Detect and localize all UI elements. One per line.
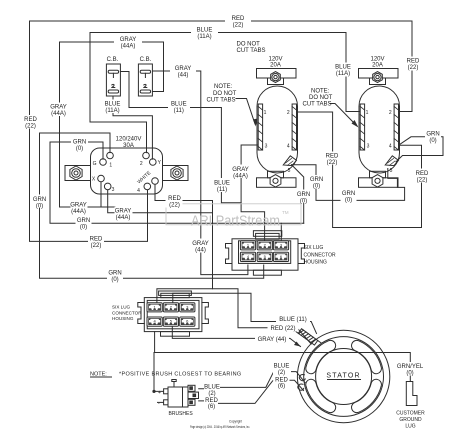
leader brushes RED(6) [199,381,273,404]
svg-text:GRN: GRN [33,197,46,203]
svg-text:Copyright: Copyright [229,420,242,424]
svg-text:C.B.: C.B. [140,57,152,63]
svg-text:NOTE:: NOTE: [311,89,330,95]
stator slot SW [306,379,336,412]
svg-text:BLUE: BLUE [197,27,213,33]
label BLUE (11A) under CB1 [103,100,122,114]
circuit breaker CB2 [138,64,152,96]
svg-text:20A: 20A [372,62,383,68]
L14-30 receptacle body [91,148,163,194]
wire brush feed [154,353,164,392]
stator slot NW [306,340,336,373]
receptacle terminal numbers rec2 [366,110,393,174]
svg-text:GRN: GRN [426,131,439,137]
label RED (22) left vertical [23,115,38,129]
svg-text:30A: 30A [123,143,134,149]
watermark box [166,204,301,225]
svg-text:DO NOT: DO NOT [309,95,333,101]
L14 terminal X [98,175,105,182]
svg-text:GRN: GRN [73,139,86,145]
stator ring circle [304,337,384,417]
svg-text:GRN: GRN [108,270,121,276]
receptacle terminal numbers rec1 [264,110,291,174]
middle connector pin 2 [257,241,272,250]
svg-text:4: 4 [137,188,140,194]
wire BLUE(11A): L14 circle 2 to receptacle2 terminal1 [90,33,360,153]
label GRN (0) low bus [107,268,123,283]
svg-text:GRAY (44): GRAY (44) [258,337,287,343]
svg-text:3: 3 [367,144,370,150]
bottom connector pin 3 [180,303,195,312]
svg-text:BLUE (11): BLUE (11) [279,317,307,323]
svg-text:GRAY: GRAY [115,208,132,214]
svg-text:(44A): (44A) [121,43,136,49]
middle connector pin 1 [240,241,255,250]
tab 5 [283,156,296,166]
svg-text:RED: RED [205,398,218,404]
svg-text:RED: RED [407,58,420,64]
svg-text:NOTE:: NOTE: [214,84,233,90]
label GRN (0) tab5 riser 2 [296,190,312,205]
svg-text:BLUE: BLUE [214,180,230,186]
svg-text:CONNECTOR: CONNECTOR [304,253,337,259]
wire L14 circle 3 to RED vertical (GRAY 44A leader) [108,190,213,213]
wire L14 circle X drop [100,182,102,207]
wire GRN/YEL: bottom connector pin4 across stator to ground lug [155,332,411,382]
stator winding hatch [295,326,321,347]
svg-text:(2): (2) [208,391,215,397]
label GRAY (44A) rec1 t3 [230,165,252,180]
wire RED(22): receptacle1 terminal2 to receptacle2 terminal4 [297,112,422,228]
svg-text:(44A): (44A) [71,209,86,215]
label BLUE (2) right [273,362,291,376]
L14 right mounting ear [163,166,189,181]
svg-text:(22): (22) [25,123,36,129]
svg-text:GROUND: GROUND [399,417,422,423]
svg-text:(0): (0) [429,138,436,144]
svg-text:RED: RED [232,16,245,22]
wire GRN(0): L14 circle G to green bus [50,142,304,223]
stator slot SE [352,379,382,412]
arrowhead note2 [253,119,258,127]
svg-text:SIX LUG: SIX LUG [304,245,324,251]
svg-text:RED (22): RED (22) [270,326,295,332]
middle connector pin 4 [240,252,255,261]
label GRN/YEL (0) [396,362,425,377]
svg-text:(44): (44) [195,247,206,253]
svg-text:(0): (0) [406,371,413,377]
svg-text:Page design (c) 2004 - 2016 by: Page design (c) 2004 - 2016 by ARI Netwo… [190,425,250,429]
svg-text:GRAY: GRAY [192,241,209,247]
label BLUE (2) brushes [204,385,220,397]
wire GRAY(44A): receptacle1 terminal3 to middle connector pin2 [241,145,265,241]
svg-text:CUSTOMER: CUSTOMER [396,411,425,417]
stator outer circle [297,330,389,422]
svg-text:RED: RED [24,117,37,123]
six lug connector middle housing [226,231,305,276]
label GRN (0) rec2 jumper [425,129,441,144]
svg-text:DO NOT: DO NOT [237,41,261,47]
note1 do not cut tabs [237,41,266,54]
middle connector pin 6 [273,252,288,261]
svg-text:(6): (6) [278,384,285,390]
svg-text:GRN/YEL: GRN/YEL [397,364,424,370]
bottom connector pin 1 [147,303,162,312]
wire GRN(0) riser to receptacle1 tab5 [292,165,304,224]
stator brush hook upper [299,375,305,381]
svg-text:(11): (11) [174,108,184,114]
svg-text:(22): (22) [408,65,419,71]
stator inner circle [316,349,372,405]
wire GRN(0): receptacle1 tab5 to receptacle2 tab5 staircase [292,165,405,201]
svg-text:GRAY: GRAY [50,104,67,110]
svg-text:(0): (0) [313,183,320,189]
brushes assembly [164,380,199,408]
stator slot NE [352,340,382,373]
svg-text:C.B.: C.B. [107,57,119,63]
wire RED(22) stator lead: bottom connector pin1 [157,289,311,344]
bottom bracket [268,171,284,178]
L14 terminal 4 [144,183,151,190]
svg-text:2: 2 [140,161,143,167]
svg-text:GRN: GRN [297,192,310,198]
svg-text:(0): (0) [76,146,83,152]
svg-text:DO NOT: DO NOT [213,91,237,97]
label BLUE (11) stator lead [276,314,310,323]
note positive brush [90,372,242,378]
label GRAY (44) stator lead [255,334,289,343]
svg-text:RED: RED [326,153,339,159]
wire brush minus stub [158,401,164,403]
svg-text:*POSITIVE BRUSH CLOSEST TO BEA: *POSITIVE BRUSH CLOSEST TO BEARING [119,372,242,378]
label RED (22) mid vertical [325,152,339,166]
copyright [190,420,250,429]
wire GRAY(44A): CB2 bottom to L14 circle X [60,42,164,207]
svg-text:1: 1 [109,162,112,168]
bottom connector pin 6 [180,317,195,326]
label GRAY (44A) top [114,36,142,50]
label BLUE (11A) top [191,26,218,40]
svg-text:LUG: LUG [405,424,415,430]
svg-text:1: 1 [264,110,267,116]
wire BLUE(11) stator lead: bottom connector pin2 [173,293,317,333]
svg-text:120/240V: 120/240V [116,136,142,142]
leader note3 arrow to receptacle2 tab [330,104,357,126]
svg-text:(22): (22) [233,22,244,28]
svg-text:(22): (22) [169,202,180,208]
svg-text:(0): (0) [111,277,118,283]
label RED (22) W wire [166,194,183,209]
label RED (22) bottom-left [88,235,104,249]
svg-text:ARI PartStream: ARI PartStream [191,213,280,230]
svg-text:4: 4 [389,144,392,150]
top bracket [257,69,297,79]
label BLUE (11A) rec2 [333,63,353,77]
L14 left mounting ear [65,166,91,181]
svg-text:CONNECTOR: CONNECTOR [112,310,142,315]
svg-text:(11A): (11A) [197,34,211,40]
wire GRN(0) jumper: receptacle2 terminal4 to tab5 [396,137,443,162]
svg-text:RED: RED [416,171,429,177]
label GRAY (44) gray44 vertical [192,239,209,254]
receptacle R2 copy [359,69,400,188]
bottom connector pin 2 [163,303,178,312]
customer ground lug [406,382,417,406]
label 120V 20A rec1 [268,56,282,68]
svg-text:BLUE: BLUE [204,385,220,391]
svg-text:GRAY: GRAY [232,167,249,173]
label 120V 20A rec2 [370,56,384,68]
svg-text:3: 3 [112,187,115,193]
svg-text:(11): (11) [217,187,227,193]
svg-text:(11A): (11A) [336,71,350,77]
bottom connector pin numbers [153,304,189,323]
svg-text:(0): (0) [36,203,43,209]
arrowhead GRAY(44) lead [294,342,301,347]
circuit breaker CB1 [106,64,120,96]
leader RED(6) to stator hook [288,380,304,390]
text STATOR [326,373,361,380]
receptacle R1 120V 20A duplex [257,69,298,188]
svg-text:(2): (2) [278,370,285,376]
svg-text:(44A): (44A) [116,215,131,221]
junction dot brush feed [152,390,155,393]
middle connector pin 3 [273,241,288,250]
svg-text:(6): (6) [208,404,215,410]
svg-text:(44): (44) [178,72,189,78]
svg-text:1: 1 [366,110,369,116]
svg-text:(44A): (44A) [233,173,248,179]
label GRN (0) left drop [32,195,47,210]
label GRAY (44) cb2 [170,65,196,79]
svg-text:BLUE: BLUE [274,363,290,369]
svg-text:4: 4 [287,144,290,150]
label RED (22) stator lead [268,323,299,332]
svg-text:GRN: GRN [77,218,90,224]
L14 terminal G [100,159,107,166]
label GRAY (44A) X wire [70,201,87,215]
label GRAY (44A) left vertical [50,103,67,117]
svg-text:(0): (0) [80,224,87,230]
wire RED(22) main loop: receptacle2 terminal2 to L14 screw 4 [30,21,413,241]
svg-text:CUT TABS: CUT TABS [237,48,266,54]
svg-text:2: 2 [389,110,392,116]
bottom connector pin 4 [147,317,162,326]
label RED (22) right-lower vertical [415,169,430,184]
leader note2 arrow to receptacle1 tab [236,99,255,125]
svg-text:BRUSHES: BRUSHES [169,411,194,417]
svg-text:BLUE: BLUE [335,64,351,70]
svg-text:2: 2 [287,110,290,116]
label RED (6) brushes [205,398,218,410]
svg-text:3: 3 [265,144,268,150]
right slot hatched [292,104,296,150]
label BLUE (11) cb1 [168,100,190,114]
svg-text:HOUSING: HOUSING [304,260,327,266]
svg-text:BLUE: BLUE [105,101,121,107]
leader brushes BLUE(2) [199,372,274,389]
wire GRN(0) branch to middle connector pin3 [280,223,282,241]
L14 terminal letters [92,160,162,194]
svg-text:SIX LUG: SIX LUG [112,305,131,310]
svg-text:CUT TABS: CUT TABS [207,97,236,103]
svg-text:GRAY: GRAY [120,37,137,43]
svg-text:RED: RED [275,378,288,384]
svg-text:(22): (22) [91,243,102,249]
note2 rec1 [207,84,237,103]
svg-text:(0): (0) [300,198,307,204]
svg-text:RED: RED [90,236,103,242]
bottom connector pin 5 [163,317,178,326]
label BLUE (11) vertical 2 [213,178,232,193]
svg-text:5: 5 [390,168,393,174]
wire BLUE(11): CB1 top to middle connector pin2 feed [120,72,241,203]
svg-text:(44A): (44A) [51,111,66,117]
label RED (22) right vertical [406,57,421,71]
svg-text:CUT TABS: CUT TABS [303,102,332,108]
L14 terminal 2 [143,152,150,159]
left slot hatched [258,104,262,150]
label GRN (0) green bus [76,216,92,230]
oval body [257,86,298,173]
label 120/240V 30A [116,136,142,149]
L14 terminal W [152,178,159,185]
L14 terminal Y [150,159,157,166]
wire GRN(0): L14 circle 1 to middle connector pin5 [40,133,264,278]
middle connector pin 5 [257,252,272,261]
wire GRAY(44): CB2 top to middle connector pin4 [153,71,248,275]
svg-text:HOUSING: HOUSING [112,316,134,321]
svg-text:RED: RED [168,196,181,202]
svg-text:G: G [93,161,97,167]
leader BLUE(2) to stator hook [289,372,306,383]
label GRN (0) L14 G [71,138,88,152]
middle connector pin numbers [247,242,283,259]
svg-text:GRN: GRN [310,177,323,183]
svg-text:(22): (22) [417,177,428,183]
note3 rec2 [303,89,333,108]
svg-text:(22): (22) [327,160,338,166]
label GRN (0) staircase bus [341,189,357,203]
svg-text:GRN: GRN [342,191,355,197]
stator brush hook lower [298,384,304,390]
label GRAY (44A) circle3 wire [115,207,133,221]
svg-text:+: + [158,390,161,396]
svg-text:5: 5 [288,168,291,174]
wire BLUE(11A): CB1 bottom to L14 circle Y [113,96,152,159]
L14 terminal 3 [104,183,111,190]
svg-text:20A: 20A [270,62,281,68]
six lug connector bottom-left housing [138,291,209,336]
svg-text:GRAY: GRAY [175,66,192,72]
text six lug connector middle [304,245,337,266]
arrowhead note3 [352,120,359,128]
text six lug connector bottom [112,305,142,322]
L14 terminal 1 [107,152,114,159]
text customer ground lug [396,411,425,430]
svg-text:GRAY: GRAY [70,203,87,209]
label RED (22) top [225,15,251,29]
svg-text:BLUE: BLUE [171,102,187,108]
label GRN (0) tab5 riser 1 [309,175,325,189]
svg-text:STATOR: STATOR [326,373,360,380]
svg-text:(0): (0) [345,197,352,203]
wire RED(22): L14 circle W to bottom connector pin1 [155,185,213,289]
label RED (6) right [274,376,290,389]
wire GRAY(44) stator lead: bottom connector pin5 [172,327,300,347]
svg-text:TM: TM [282,210,289,215]
svg-text:(11A): (11A) [105,108,119,114]
